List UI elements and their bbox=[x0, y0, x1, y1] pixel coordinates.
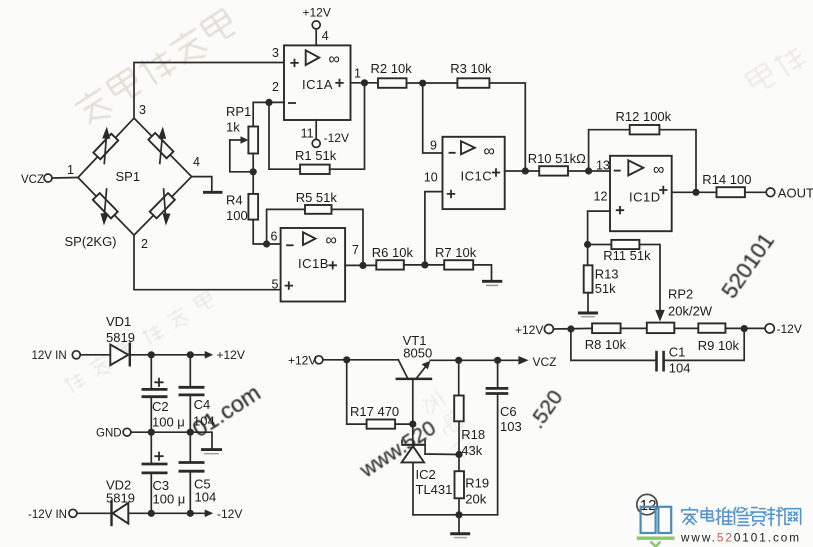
svg-text:520101: 520101 bbox=[717, 228, 780, 302]
op-amp IC1C bbox=[443, 137, 505, 209]
RP1 wiper wire to lower node bbox=[230, 140, 253, 172]
node C6 top bbox=[494, 357, 501, 364]
pin 11 wire bbox=[315, 120, 317, 139]
wire C6 top bbox=[497, 360, 499, 387]
svg-text:R19: R19 bbox=[465, 476, 489, 491]
node IC1B output bbox=[359, 262, 366, 269]
wire C4 to GND rail bbox=[189, 396, 191, 432]
wire R17 to base node bbox=[395, 423, 413, 425]
wire C1 branch bbox=[571, 329, 657, 360]
node C4 top bbox=[187, 351, 194, 358]
wire base bbox=[412, 381, 414, 425]
wire rail node to R18 bbox=[458, 360, 460, 395]
svg-text:IC1B: IC1B bbox=[298, 256, 329, 271]
svg-text:SP(2KG): SP(2KG) bbox=[65, 234, 117, 249]
svg-text:C1: C1 bbox=[669, 345, 686, 360]
potentiometer RP1 1k bbox=[248, 127, 258, 154]
node at pin 2 bbox=[265, 99, 272, 106]
svg-text:43k: 43k bbox=[461, 443, 482, 458]
wire R14 to AOUT bbox=[745, 191, 766, 193]
node C5 bottom bbox=[187, 510, 194, 517]
logo text 家电维修资料网 (drawn strokes) bbox=[682, 508, 801, 526]
svg-text:IC1D: IC1D bbox=[629, 190, 661, 205]
wire R4 bottom to IC1B pin 6 bbox=[253, 220, 280, 244]
wire RP1 bottom to R4 bbox=[252, 154, 254, 194]
svg-text:1k: 1k bbox=[226, 120, 240, 135]
node R17 branch bbox=[343, 356, 350, 363]
node IC1D output bbox=[692, 189, 699, 196]
capacitor C5 104 bbox=[179, 461, 205, 464]
wire to ground bbox=[458, 515, 460, 533]
wire C2 to GND rail bbox=[150, 398, 152, 432]
svg-text:IC2: IC2 bbox=[416, 467, 436, 482]
svg-text:6: 6 bbox=[271, 230, 278, 244]
svg-text:10: 10 bbox=[424, 171, 438, 185]
RP1 wiper arrow bbox=[230, 139, 242, 141]
terminal AOUT bbox=[766, 188, 775, 197]
wire node to TL431 cathode bbox=[412, 424, 414, 445]
node pin 13 bbox=[585, 167, 592, 174]
resistor R18 43k bbox=[454, 396, 464, 422]
resistor R19 20k bbox=[455, 471, 465, 498]
wire IC1C output to R10 bbox=[505, 170, 540, 172]
wire R13 to ground bbox=[587, 293, 589, 311]
svg-text:1: 1 bbox=[67, 163, 74, 177]
potentiometer RP2 20k/2W bbox=[647, 323, 675, 334]
node R6/R7 junction bbox=[421, 261, 428, 268]
svg-text:C6: C6 bbox=[500, 404, 517, 419]
svg-text:R1 51k: R1 51k bbox=[295, 148, 337, 163]
RP2 wiper arrow bbox=[655, 310, 665, 322]
terminal -12V IN bbox=[69, 509, 77, 517]
node C3 bottom bbox=[148, 510, 155, 517]
wire TL431 anode down bbox=[412, 462, 414, 514]
svg-text:12V IN: 12V IN bbox=[32, 350, 67, 362]
svg-text:R3 10k: R3 10k bbox=[450, 61, 492, 76]
wire +12V to VT1 collector bbox=[323, 359, 398, 361]
svg-text:12: 12 bbox=[594, 190, 608, 204]
svg-text:-12V: -12V bbox=[324, 131, 349, 145]
svg-text:+12V: +12V bbox=[288, 354, 316, 368]
wire VD1 to +12V arrow bbox=[130, 354, 205, 356]
wire R19 to bottom rail bbox=[458, 498, 460, 515]
svg-text:∞: ∞ bbox=[484, 143, 495, 160]
node R18/R19/ref bbox=[455, 451, 462, 458]
wire pin2 node down to R1 bbox=[269, 102, 300, 169]
svg-text:R10 51kΩ: R10 51kΩ bbox=[528, 151, 586, 166]
svg-text:C2: C2 bbox=[152, 399, 169, 414]
wire node 6 up and R5 bbox=[267, 209, 305, 244]
-12V terminal (pin 11) bbox=[312, 139, 320, 147]
logo book icon bbox=[641, 507, 672, 533]
svg-text:R13: R13 bbox=[595, 267, 619, 282]
op-amp IC1A bbox=[284, 45, 351, 120]
IC2 TL431 bbox=[402, 444, 425, 446]
terminal VCZ bbox=[44, 174, 52, 182]
svg-text:R9 10k: R9 10k bbox=[698, 338, 740, 353]
strain gauge upper-right arm bbox=[148, 133, 173, 158]
strain gauge lower-left arm bbox=[93, 193, 118, 218]
wire RP2 to R9 bbox=[674, 327, 698, 329]
svg-text:7: 7 bbox=[352, 243, 359, 257]
svg-text:20k: 20k bbox=[465, 492, 486, 507]
wire C5 to -12V rail bbox=[189, 472, 191, 513]
wire R1 to IC1A output node bbox=[330, 83, 365, 169]
wire GND rail to C3 bbox=[150, 432, 152, 463]
ground regulator bbox=[450, 532, 470, 535]
strain gauge upper-left arm bbox=[93, 134, 118, 159]
bottom rail TL431/R19/C6 bbox=[413, 514, 498, 516]
svg-text:1: 1 bbox=[354, 67, 361, 81]
transistor VT1 8050 bbox=[398, 360, 407, 378]
node GND/C4 bbox=[187, 429, 194, 436]
resistor R6 10k bbox=[376, 260, 404, 269]
node below RP1 bbox=[250, 168, 257, 175]
wire R12 to output node bbox=[659, 130, 696, 193]
svg-text:3: 3 bbox=[139, 103, 146, 117]
+12V terminal (pin 4) bbox=[312, 21, 320, 29]
resistor R9 10k bbox=[698, 323, 725, 332]
svg-text:5819: 5819 bbox=[106, 330, 135, 345]
capacitor C2 100u bbox=[154, 378, 163, 387]
svg-text:+12V: +12V bbox=[303, 6, 331, 20]
wire +12V to R8 bbox=[553, 327, 592, 330]
resistor R11 51k bbox=[611, 240, 639, 249]
resistor R3 10k bbox=[457, 78, 489, 88]
svg-text:100: 100 bbox=[226, 208, 248, 223]
svg-text:AOUT: AOUT bbox=[778, 186, 813, 201]
wire -12V IN to VD2 bbox=[77, 512, 112, 514]
resistor R10 51k bbox=[539, 166, 568, 175]
wire IC1A pin 2 to node bbox=[269, 101, 284, 103]
ground symbol power section bbox=[201, 448, 222, 451]
svg-text:-12V: -12V bbox=[217, 507, 242, 521]
page number 12 bbox=[637, 494, 657, 514]
terminal -12V right row bbox=[765, 324, 774, 333]
svg-text:51k: 51k bbox=[595, 281, 616, 296]
node IC1C output bbox=[522, 167, 529, 174]
capacitor C6 103 bbox=[486, 387, 509, 390]
wire 12V IN to VD1 bbox=[80, 354, 110, 356]
wire node to C2 bbox=[150, 355, 152, 389]
svg-text:VD1: VD1 bbox=[106, 314, 131, 329]
capacitor C4 104 bbox=[179, 386, 205, 389]
wire R3 to IC1C output node bbox=[489, 83, 525, 171]
resistor R8 10k bbox=[592, 323, 621, 333]
svg-text:R14 100: R14 100 bbox=[702, 172, 751, 187]
node C2 top bbox=[148, 351, 155, 358]
resistor R4 100 bbox=[248, 194, 258, 220]
wire R2/R3 node to IC1C pin 9 bbox=[423, 83, 443, 153]
svg-text:∞: ∞ bbox=[326, 232, 337, 249]
wire R6 to R7 bbox=[404, 264, 444, 266]
node left of R8 bbox=[567, 325, 574, 332]
resistor R7 10k bbox=[444, 260, 473, 269]
svg-text:+12V: +12V bbox=[515, 323, 543, 337]
wire VD2 to -12V arrow bbox=[128, 512, 204, 514]
wire IC1C pin 10 down to R6/R7 node bbox=[425, 192, 443, 265]
GND rail wire bbox=[131, 432, 212, 448]
wire R10 to IC1D pin 13 bbox=[568, 170, 610, 172]
resistor R5 51k bbox=[305, 205, 332, 214]
svg-text:VCZ: VCZ bbox=[533, 355, 557, 369]
svg-text:R7 10k: R7 10k bbox=[435, 245, 477, 260]
svg-text:5: 5 bbox=[272, 278, 279, 292]
resistor R17 470 bbox=[367, 420, 396, 429]
svg-text:20k/2W: 20k/2W bbox=[668, 304, 713, 319]
svg-text:5819: 5819 bbox=[106, 491, 135, 506]
svg-text:R18: R18 bbox=[461, 427, 485, 442]
svg-text:R5 51k: R5 51k bbox=[296, 190, 338, 205]
terminal 12V IN bbox=[72, 351, 80, 359]
strain gauge lower-right arm bbox=[150, 193, 175, 218]
svg-text:TL431: TL431 bbox=[416, 482, 453, 497]
node GND/C2 bbox=[148, 429, 155, 436]
diode VD1 5819 bbox=[110, 345, 128, 366]
svg-text:R17 470: R17 470 bbox=[350, 404, 399, 419]
wire node to R11 bbox=[588, 244, 612, 246]
svg-text:VCZ: VCZ bbox=[21, 174, 44, 186]
svg-text:3: 3 bbox=[272, 46, 279, 60]
capacitor C1 104 bbox=[655, 351, 658, 372]
svg-text:∞: ∞ bbox=[329, 51, 340, 68]
resistor R1 51k bbox=[300, 165, 330, 174]
svg-text:2: 2 bbox=[141, 237, 148, 251]
svg-text:IC1C: IC1C bbox=[461, 169, 493, 184]
wire IC1A output bbox=[351, 82, 379, 84]
node base/R17/TL431 bbox=[409, 421, 416, 428]
wire R5 to IC1B output node bbox=[332, 209, 364, 265]
node at IC1B pin 6 bbox=[263, 240, 270, 247]
wire TL431 ref to R18/R19 node bbox=[425, 453, 459, 456]
bridge SP1 outline bbox=[78, 118, 192, 235]
node bottom rail bbox=[455, 511, 462, 518]
op-amp IC1D bbox=[610, 156, 672, 231]
svg-text:8050: 8050 bbox=[403, 346, 432, 361]
svg-text:104: 104 bbox=[195, 490, 217, 505]
wire GND rail to C5 bbox=[189, 432, 191, 461]
svg-text:R4: R4 bbox=[226, 193, 243, 208]
ground after R7 bbox=[482, 280, 502, 283]
wire C6 bottom bbox=[497, 395, 499, 515]
svg-text:-12V: -12V bbox=[777, 322, 802, 336]
terminal +12V right row bbox=[544, 325, 553, 334]
svg-text:RP1: RP1 bbox=[226, 104, 251, 119]
svg-text:4: 4 bbox=[193, 155, 200, 169]
svg-text:4: 4 bbox=[322, 29, 329, 43]
svg-text:IC1A: IC1A bbox=[302, 77, 333, 92]
svg-text:104: 104 bbox=[193, 414, 215, 429]
wire VCZ to bridge node 1 bbox=[52, 177, 78, 180]
wire R11 to RP2 wiper bbox=[639, 245, 660, 311]
node R2/R3 junction bbox=[419, 80, 426, 87]
svg-text:R2 10k: R2 10k bbox=[371, 61, 413, 76]
svg-text:R11 51k: R11 51k bbox=[603, 248, 651, 263]
terminal +12V regulator bbox=[315, 356, 323, 364]
svg-text:2: 2 bbox=[272, 80, 279, 94]
wire R17 branch bbox=[347, 360, 367, 424]
svg-text:www.520101.com: www.520101.com bbox=[680, 531, 801, 545]
wire IC1B output bbox=[345, 264, 376, 266]
svg-text:R8 10k: R8 10k bbox=[585, 337, 627, 352]
wire bridge node 2 to IC1B pin 5 bbox=[134, 235, 281, 290]
node right of R9 bbox=[741, 325, 748, 332]
capacitor C3 100u bbox=[154, 452, 163, 461]
svg-text:+12V: +12V bbox=[217, 348, 245, 362]
wire R7 to ground bbox=[473, 265, 491, 280]
wire bridge node 3 to IC1A pin 3 bbox=[134, 63, 284, 119]
pin 4 wire bbox=[315, 29, 317, 46]
wire node to RP1 top bbox=[253, 102, 269, 126]
-12V arrow bbox=[205, 510, 214, 518]
resistor R2 10k bbox=[378, 78, 407, 88]
wire bridge node 4 to ground bbox=[192, 177, 212, 191]
svg-text:100 μ: 100 μ bbox=[153, 492, 186, 507]
node pin 12 branch bbox=[584, 241, 591, 248]
diode VD2 5819 bbox=[113, 503, 129, 524]
svg-text:∞: ∞ bbox=[653, 162, 664, 179]
svg-text:RP2: RP2 bbox=[668, 287, 693, 302]
wire C3 to -12V rail bbox=[150, 474, 152, 513]
terminal GND bbox=[123, 428, 131, 436]
svg-text:R12 100k: R12 100k bbox=[616, 109, 672, 124]
wire node 13 up through R12 to output bbox=[589, 130, 630, 171]
wire VT1 emitter to VCZ arrow bbox=[430, 359, 518, 361]
+12V arrow bbox=[205, 351, 214, 359]
svg-text:11: 11 bbox=[301, 127, 314, 141]
ground at bridge node 4 bbox=[203, 191, 223, 194]
svg-text:GND: GND bbox=[96, 428, 122, 440]
wire R2 to R3 bbox=[407, 82, 458, 84]
op-amp IC1B bbox=[281, 228, 346, 302]
svg-text:12: 12 bbox=[640, 497, 657, 514]
resistor R13 51k bbox=[584, 265, 593, 292]
svg-text:100 μ: 100 μ bbox=[152, 415, 185, 430]
ground below R13 bbox=[578, 312, 598, 315]
wire C1 to -12V node bbox=[664, 329, 745, 361]
wire IC1D output bbox=[672, 191, 717, 193]
resistor R14 100 bbox=[717, 187, 745, 197]
node IC1A output bbox=[361, 79, 368, 86]
node R18 top bbox=[455, 357, 462, 364]
wire IC1D pin 12 to node bbox=[588, 211, 610, 265]
svg-text:13: 13 bbox=[596, 159, 610, 173]
svg-text:R6 10k: R6 10k bbox=[372, 245, 414, 260]
svg-text:SP1: SP1 bbox=[116, 169, 141, 184]
svg-text:-12V IN: -12V IN bbox=[28, 509, 67, 521]
resistor R12 100k bbox=[630, 125, 660, 134]
wire R9 to -12V terminal bbox=[725, 327, 765, 329]
svg-text:9: 9 bbox=[430, 139, 437, 153]
svg-text:C4: C4 bbox=[194, 397, 211, 412]
svg-text:103: 103 bbox=[500, 419, 522, 434]
wire R18 to R19 bbox=[458, 421, 460, 471]
svg-text:104: 104 bbox=[669, 361, 691, 376]
wire node to C4 bbox=[189, 355, 191, 386]
svg-text:.520: .520 bbox=[525, 386, 567, 433]
wire R8 to RP2 bbox=[621, 327, 647, 329]
VCZ arrow bbox=[518, 356, 528, 365]
